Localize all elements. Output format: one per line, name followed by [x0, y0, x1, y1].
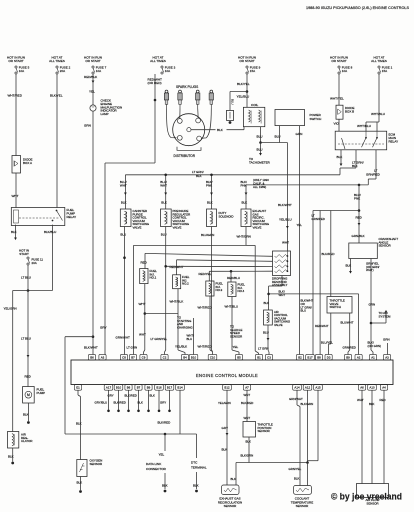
svg-text:RED/YEL: RED/YEL: [199, 272, 212, 276]
svg-text:D3: D3: [327, 355, 331, 359]
svg-text:A17: A17: [106, 386, 112, 390]
svg-text:BLK: BLK: [150, 393, 156, 397]
svg-text:CHARGING: CHARGING: [177, 325, 193, 329]
svg-text:OR START: OR START: [239, 59, 254, 63]
svg-text:VIO: VIO: [334, 122, 340, 126]
svg-text:SYSTEM: SYSTEM: [379, 314, 391, 318]
svg-text:10A: 10A: [19, 69, 24, 73]
svg-text:OR START: OR START: [331, 59, 346, 63]
svg-text:NO.1: NO.1: [150, 276, 157, 280]
svg-text:VALVE: VALVE: [253, 226, 262, 230]
svg-text:B12: B12: [224, 386, 230, 390]
svg-text:BLK: BLK: [207, 201, 213, 205]
svg-text:ALL TIMES: ALL TIMES: [371, 59, 387, 63]
svg-text:SENSOR: SENSOR: [90, 462, 104, 466]
svg-text:BLK: BLK: [369, 402, 375, 406]
svg-text:YEL/BLU: YEL/BLU: [279, 218, 292, 222]
svg-text:BLU/GRN: BLU/GRN: [201, 233, 214, 237]
svg-text:WHT: WHT: [357, 398, 364, 402]
svg-text:WHT/BLU: WHT/BLU: [371, 112, 385, 116]
svg-text:GRY: GRY: [222, 426, 228, 430]
svg-text:OR START: OR START: [85, 59, 100, 63]
svg-text:LT GRN: LT GRN: [258, 347, 269, 351]
svg-text:RED/BLK: RED/BLK: [84, 75, 98, 79]
svg-text:B9: B9: [147, 386, 151, 390]
svg-text:RED: RED: [141, 261, 148, 265]
svg-text:BLU: BLU: [187, 337, 193, 341]
svg-text:SOLENOID: SOLENOID: [219, 214, 234, 218]
svg-text:BLK: BLK: [337, 155, 344, 159]
svg-text:VALVE: VALVE: [173, 226, 182, 230]
svg-text:BLU: BLU: [257, 135, 263, 139]
svg-text:RED: RED: [25, 375, 32, 379]
svg-text:BLU/RED: BLU/RED: [322, 252, 336, 256]
svg-text:20A: 20A: [32, 261, 37, 265]
svg-text:A1: A1: [371, 355, 375, 359]
svg-text:BLK: BLK: [346, 264, 352, 268]
svg-text:RED: RED: [356, 216, 363, 220]
svg-text:B6: B6: [127, 386, 131, 390]
svg-text:BLK/YEL: BLK/YEL: [50, 94, 63, 98]
svg-text:WHT): WHT): [366, 268, 374, 272]
svg-text:WHT: WHT: [160, 183, 167, 187]
svg-text:VALVE: VALVE: [274, 323, 283, 327]
svg-text:WHT/YEL: WHT/YEL: [330, 97, 344, 101]
svg-text:GRY/BLU: GRY/BLU: [95, 400, 108, 404]
svg-text:NO.2: NO.2: [182, 282, 189, 286]
svg-text:RELAY: RELAY: [67, 215, 77, 219]
svg-text:BLK: BLK: [222, 448, 228, 452]
svg-text:BLK/WHT: BLK/WHT: [84, 346, 98, 350]
svg-text:GRN/RED: GRN/RED: [343, 346, 356, 350]
svg-text:GRN: GRN: [383, 338, 390, 342]
svg-text:SENSOR: SENSOR: [379, 244, 391, 248]
svg-text:TACHOMETER: TACHOMETER: [249, 161, 271, 165]
svg-text:SENSOR: SENSOR: [366, 501, 378, 505]
svg-text:PNK: PNK: [206, 183, 212, 187]
svg-text:RED/BLU: RED/BLU: [227, 276, 240, 280]
svg-text:BLK/RED: BLK/RED: [114, 400, 126, 404]
svg-text:WHT: WHT: [279, 293, 286, 297]
svg-text:A14: A14: [294, 386, 300, 390]
svg-text:WHT: WHT: [139, 333, 146, 337]
svg-text:GRN/WHT: GRN/WHT: [289, 397, 303, 401]
svg-text:B7: B7: [131, 355, 135, 359]
svg-text:WHT: WHT: [282, 241, 289, 245]
svg-text:C10: C10: [210, 355, 216, 359]
svg-text:BLU: BLU: [120, 233, 126, 237]
svg-text:A4: A4: [382, 386, 386, 390]
svg-text:A3: A3: [101, 355, 105, 359]
svg-text:WHT/BLK: WHT/BLK: [170, 300, 185, 304]
svg-text:15A: 15A: [250, 69, 255, 73]
svg-text:ENGINE CONTROL MODULE: ENGINE CONTROL MODULE: [196, 373, 258, 378]
svg-text:BLK: BLK: [138, 400, 144, 404]
svg-text:BLK: BLK: [77, 481, 83, 485]
svg-text:BLK/YEL: BLK/YEL: [237, 82, 250, 86]
svg-text:10A: 10A: [165, 69, 170, 73]
svg-text:BLK/RED: BLK/RED: [158, 421, 172, 425]
svg-text:GRY: GRY: [100, 326, 107, 330]
svg-text:DTC: DTC: [191, 461, 198, 465]
svg-text:YEL/GRN: YEL/GRN: [218, 401, 231, 405]
svg-text:SENSOR: SENSOR: [224, 504, 238, 508]
svg-text:B7: B7: [137, 386, 141, 390]
svg-text:ULATOR: ULATOR: [21, 439, 32, 443]
svg-text:SENSOR: SENSOR: [296, 504, 310, 508]
svg-text:LT GRN: LT GRN: [127, 346, 138, 350]
svg-text:BOX A: BOX A: [23, 161, 32, 165]
svg-text:A15: A15: [315, 386, 321, 390]
svg-text:B16: B16: [156, 386, 162, 390]
svg-text:M: M: [27, 393, 30, 397]
svg-text:(OR RED): (OR RED): [148, 81, 162, 85]
svg-text:BLK/RED: BLK/RED: [125, 393, 137, 397]
svg-text:BLK: BLK: [264, 301, 270, 305]
svg-text:TERMINAL: TERMINAL: [191, 465, 207, 469]
svg-text:GRN: GRN: [369, 303, 376, 307]
svg-text:VALVE: VALVE: [133, 226, 142, 230]
svg-text:20A: 20A: [60, 69, 65, 73]
svg-text:GRN/RED: GRN/RED: [366, 173, 381, 177]
svg-text:BLK/GRN: BLK/GRN: [301, 402, 314, 406]
svg-text:NO.4: NO.4: [238, 289, 245, 293]
svg-text:GRY: GRY: [108, 393, 114, 397]
svg-text:START: START: [19, 252, 29, 256]
svg-text:(OR GRN): (OR GRN): [368, 344, 382, 348]
svg-text:SENSOR: SENSOR: [258, 429, 270, 433]
svg-text:BLU: BLU: [301, 309, 307, 313]
svg-text:WHT/BLU: WHT/BLU: [357, 124, 371, 128]
svg-text:ALL TIMES: ALL TIMES: [150, 59, 166, 63]
svg-text:B17: B17: [167, 386, 173, 390]
svg-text:WHT: WHT: [12, 194, 19, 198]
svg-text:© by joe vreeland: © by joe vreeland: [331, 492, 402, 502]
svg-text:A7: A7: [245, 386, 249, 390]
svg-text:PUMP: PUMP: [37, 391, 46, 395]
svg-text:OR START: OR START: [8, 59, 23, 63]
svg-text:BLK/GRN: BLK/GRN: [241, 454, 254, 458]
svg-text:WHT: WHT: [139, 302, 146, 306]
svg-text:WHT/RED: WHT/RED: [8, 94, 23, 98]
svg-text:ASSEMBLY: ASSEMBLY: [272, 283, 287, 287]
svg-text:BLK: BLK: [217, 128, 224, 132]
svg-text:ALL 1989): ALL 1989): [253, 185, 266, 189]
svg-text:COIL: COIL: [251, 103, 259, 107]
svg-text:NO.3: NO.3: [216, 288, 223, 292]
svg-text:BLK: BLK: [8, 455, 14, 459]
svg-text:DATA LINK: DATA LINK: [146, 462, 162, 466]
svg-text:YEL/BLU: YEL/BLU: [237, 94, 250, 98]
svg-text:RED: RED: [380, 398, 386, 402]
svg-text:YEL/GRN: YEL/GRN: [4, 307, 17, 311]
svg-text:WHT/GRN: WHT/GRN: [237, 235, 251, 239]
svg-text:C9: C9: [142, 355, 146, 359]
svg-text:B6: B6: [90, 355, 94, 359]
svg-text:GRN/WHT: GRN/WHT: [116, 336, 130, 340]
svg-text:WHT: WHT: [244, 416, 251, 420]
svg-text:B14: B14: [177, 386, 183, 390]
svg-text:BLK: BLK: [11, 230, 17, 234]
svg-text:ALL TIMES: ALL TIMES: [49, 59, 65, 63]
svg-text:RED/WHT: RED/WHT: [315, 324, 329, 328]
svg-text:LT BLU: LT BLU: [21, 276, 31, 280]
svg-text:BLK: BLK: [121, 201, 127, 205]
svg-text:B9: B9: [346, 355, 350, 359]
svg-text:WHT: WHT: [244, 393, 251, 397]
svg-text:A12: A12: [305, 386, 311, 390]
svg-text:PNK: PNK: [241, 183, 247, 187]
svg-text:BLK: BLK: [352, 164, 358, 168]
svg-text:WHT: WHT: [120, 183, 127, 187]
svg-text:C3: C3: [267, 355, 271, 359]
svg-text:B17: B17: [307, 355, 313, 359]
svg-text:BLU: BLU: [275, 135, 281, 139]
svg-text:BOX B: BOX B: [345, 110, 354, 114]
svg-text:BLK/BLU: BLK/BLU: [44, 230, 56, 234]
svg-text:A10: A10: [369, 386, 375, 390]
svg-text:YEL: YEL: [159, 453, 165, 457]
svg-text:A3: A3: [385, 355, 389, 359]
svg-text:YEL: YEL: [297, 223, 303, 227]
svg-text:GRN/RED: GRN/RED: [312, 217, 325, 221]
svg-text:LT BLU: LT BLU: [21, 337, 31, 341]
svg-text:BLK: BLK: [242, 201, 248, 205]
svg-text:15A: 15A: [382, 69, 387, 73]
svg-text:B2: B2: [298, 355, 302, 359]
svg-text:10A: 10A: [96, 69, 101, 73]
svg-text:E1: E1: [76, 386, 80, 390]
svg-text:BLU/WHT: BLU/WHT: [341, 321, 354, 325]
svg-text:LT GRN/YEL: LT GRN/YEL: [151, 337, 168, 341]
svg-text:SWITCH: SWITCH: [330, 305, 341, 309]
svg-text:BLK: BLK: [162, 484, 168, 488]
svg-text:SWITCH: SWITCH: [310, 117, 322, 121]
svg-text:BLU: BLU: [231, 99, 235, 105]
svg-text:BLK: BLK: [196, 174, 202, 178]
svg-text:B10: B10: [116, 386, 122, 390]
svg-text:BLK: BLK: [246, 440, 252, 444]
svg-text:BLK: BLK: [231, 477, 237, 481]
svg-text:1988-90 ISUZU PICKUP/AMIGO (2.: 1988-90 ISUZU PICKUP/AMIGO (2.6L) ENGINE…: [306, 6, 409, 10]
svg-text:SENSOR: SENSOR: [230, 334, 242, 338]
svg-text:DISTRIBUTOR: DISTRIBUTOR: [174, 154, 196, 158]
svg-text:C8: C8: [122, 355, 126, 359]
svg-text:GRN: GRN: [84, 124, 91, 128]
svg-text:B5: B5: [237, 355, 241, 359]
svg-text:YEL/BLK: YEL/BLK: [175, 345, 187, 349]
svg-text:BLK: BLK: [193, 484, 199, 488]
svg-text:BLK: BLK: [23, 413, 29, 417]
svg-text:B1: B1: [257, 355, 261, 359]
svg-text:WHT/BLU: WHT/BLU: [225, 305, 239, 309]
svg-text:GRN/YEL: GRN/YEL: [289, 467, 302, 471]
svg-text:BLU: BLU: [263, 331, 269, 335]
svg-text:B4: B4: [183, 355, 187, 359]
svg-text:BLK/RED: BLK/RED: [241, 401, 253, 405]
svg-text:BLK/WHT: BLK/WHT: [278, 203, 292, 207]
svg-text:YEL: YEL: [233, 345, 239, 349]
svg-text:CONNECTOR: CONNECTOR: [146, 467, 167, 471]
svg-text:A6: A6: [360, 386, 364, 390]
svg-text:GRN: GRN: [296, 132, 303, 136]
svg-text:BLK: BLK: [294, 477, 300, 481]
svg-text:LAMP: LAMP: [101, 112, 109, 116]
svg-text:GRY: GRY: [160, 400, 166, 404]
svg-text:YEL: YEL: [89, 90, 95, 94]
svg-text:BLU: BLU: [257, 148, 263, 152]
svg-text:SPARK PLUGS: SPARK PLUGS: [176, 85, 198, 89]
svg-text:PNK: PNK: [354, 196, 360, 200]
svg-text:BLK: BLK: [161, 201, 167, 205]
svg-text:RELAY: RELAY: [389, 140, 399, 144]
svg-text:10A: 10A: [342, 69, 347, 73]
svg-text:B10: B10: [191, 355, 197, 359]
svg-text:BLU/YEL: BLU/YEL: [321, 341, 333, 345]
svg-text:B8: B8: [317, 355, 321, 359]
svg-text:BLK: BLK: [76, 422, 82, 426]
svg-text:RED/WHT: RED/WHT: [170, 265, 184, 269]
svg-text:GRN/BLK: GRN/BLK: [352, 234, 365, 238]
svg-text:A2: A2: [357, 355, 361, 359]
svg-text:C2: C2: [163, 355, 167, 359]
